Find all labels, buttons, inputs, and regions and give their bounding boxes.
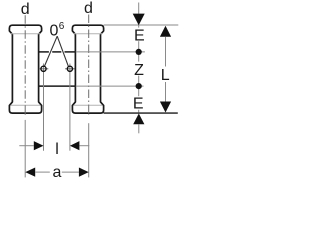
right pipe body P2 bbox=[72, 25, 103, 113]
chain dimension shaft top bbox=[138, 3, 140, 14]
hole H2 centerline horizontal bbox=[65, 68, 74, 70]
extension line a right stub bbox=[88, 113, 90, 116]
svg-text:E: E bbox=[133, 96, 144, 113]
left pipe bottom bell shoulder bbox=[11, 104, 40, 106]
dimension L arrow up bbox=[160, 26, 171, 37]
left pipe top bell shoulder bbox=[11, 33, 40, 35]
svg-text:d: d bbox=[21, 1, 30, 18]
chain arrow down onto top reference bbox=[133, 14, 145, 26]
extension line bridge top to chain bbox=[76, 51, 145, 53]
extension line a left bbox=[24, 120, 26, 177]
svg-text:E: E bbox=[134, 28, 145, 45]
left pipe body P1 bbox=[9, 25, 41, 113]
svg-text:l: l bbox=[55, 141, 59, 158]
bridge top edge segment 3 bbox=[65, 51, 76, 53]
top reference line bbox=[104, 24, 179, 26]
right pipe centerline bbox=[88, 15, 90, 115]
svg-text:0: 0 bbox=[49, 23, 58, 40]
dimension L arrow down bbox=[160, 102, 171, 113]
dimension l arrow right-pointing bbox=[34, 141, 44, 150]
hole H2 circle bbox=[67, 66, 72, 71]
extension line a right bbox=[88, 123, 90, 177]
left pipe centerline bbox=[24, 15, 26, 114]
svg-text:a: a bbox=[52, 164, 61, 180]
hole H2 centerline vertical bbox=[69, 64, 71, 151]
dimension a line left bbox=[35, 171, 50, 173]
chain dot node at bridge top bbox=[136, 49, 142, 55]
chain arrow up onto bottom reference bbox=[133, 114, 144, 125]
svg-text:6: 6 bbox=[59, 21, 65, 32]
extension line a left stub bbox=[24, 114, 26, 115]
hole H1 centerline vertical bbox=[43, 64, 45, 151]
hole H1 centerline horizontal bbox=[39, 68, 48, 70]
dimension L shaft lower bbox=[165, 82, 167, 102]
leader leg to hole H2 bbox=[57, 36, 68, 66]
dimension a arrow left-pointing bbox=[25, 168, 35, 177]
svg-text:Z: Z bbox=[134, 62, 144, 79]
dimension l arrow left-pointing bbox=[70, 141, 80, 150]
chain dot node at bridge bottom bbox=[136, 83, 142, 89]
bridge top edge segment 1 bbox=[39, 51, 49, 53]
dimension a arrow right-pointing bbox=[79, 168, 89, 177]
chain dimension line bbox=[138, 26, 140, 113]
label Z background bbox=[132, 62, 146, 76]
label E top background bbox=[132, 28, 146, 42]
bridge top edge segment 2 bbox=[52, 51, 61, 53]
hole H1 circle bbox=[41, 66, 46, 71]
chain dimension shaft bottom bbox=[138, 124, 140, 133]
svg-text:d: d bbox=[84, 0, 93, 17]
dimension l line left bbox=[19, 145, 34, 147]
label E bottom background bbox=[132, 96, 146, 110]
leader leg to hole H1 bbox=[44, 36, 57, 66]
dimension l line right bbox=[79, 145, 89, 147]
svg-text:L: L bbox=[161, 67, 170, 84]
right pipe top bell shoulder bbox=[74, 33, 102, 35]
right pipe bottom bell shoulder bbox=[74, 104, 102, 106]
dimension L shaft upper bbox=[165, 37, 167, 67]
dimension a line right bbox=[62, 171, 79, 173]
bridge bottom edge bbox=[39, 85, 76, 87]
extension line bridge bottom to chain bbox=[76, 85, 144, 87]
bottom reference line bbox=[104, 112, 178, 114]
